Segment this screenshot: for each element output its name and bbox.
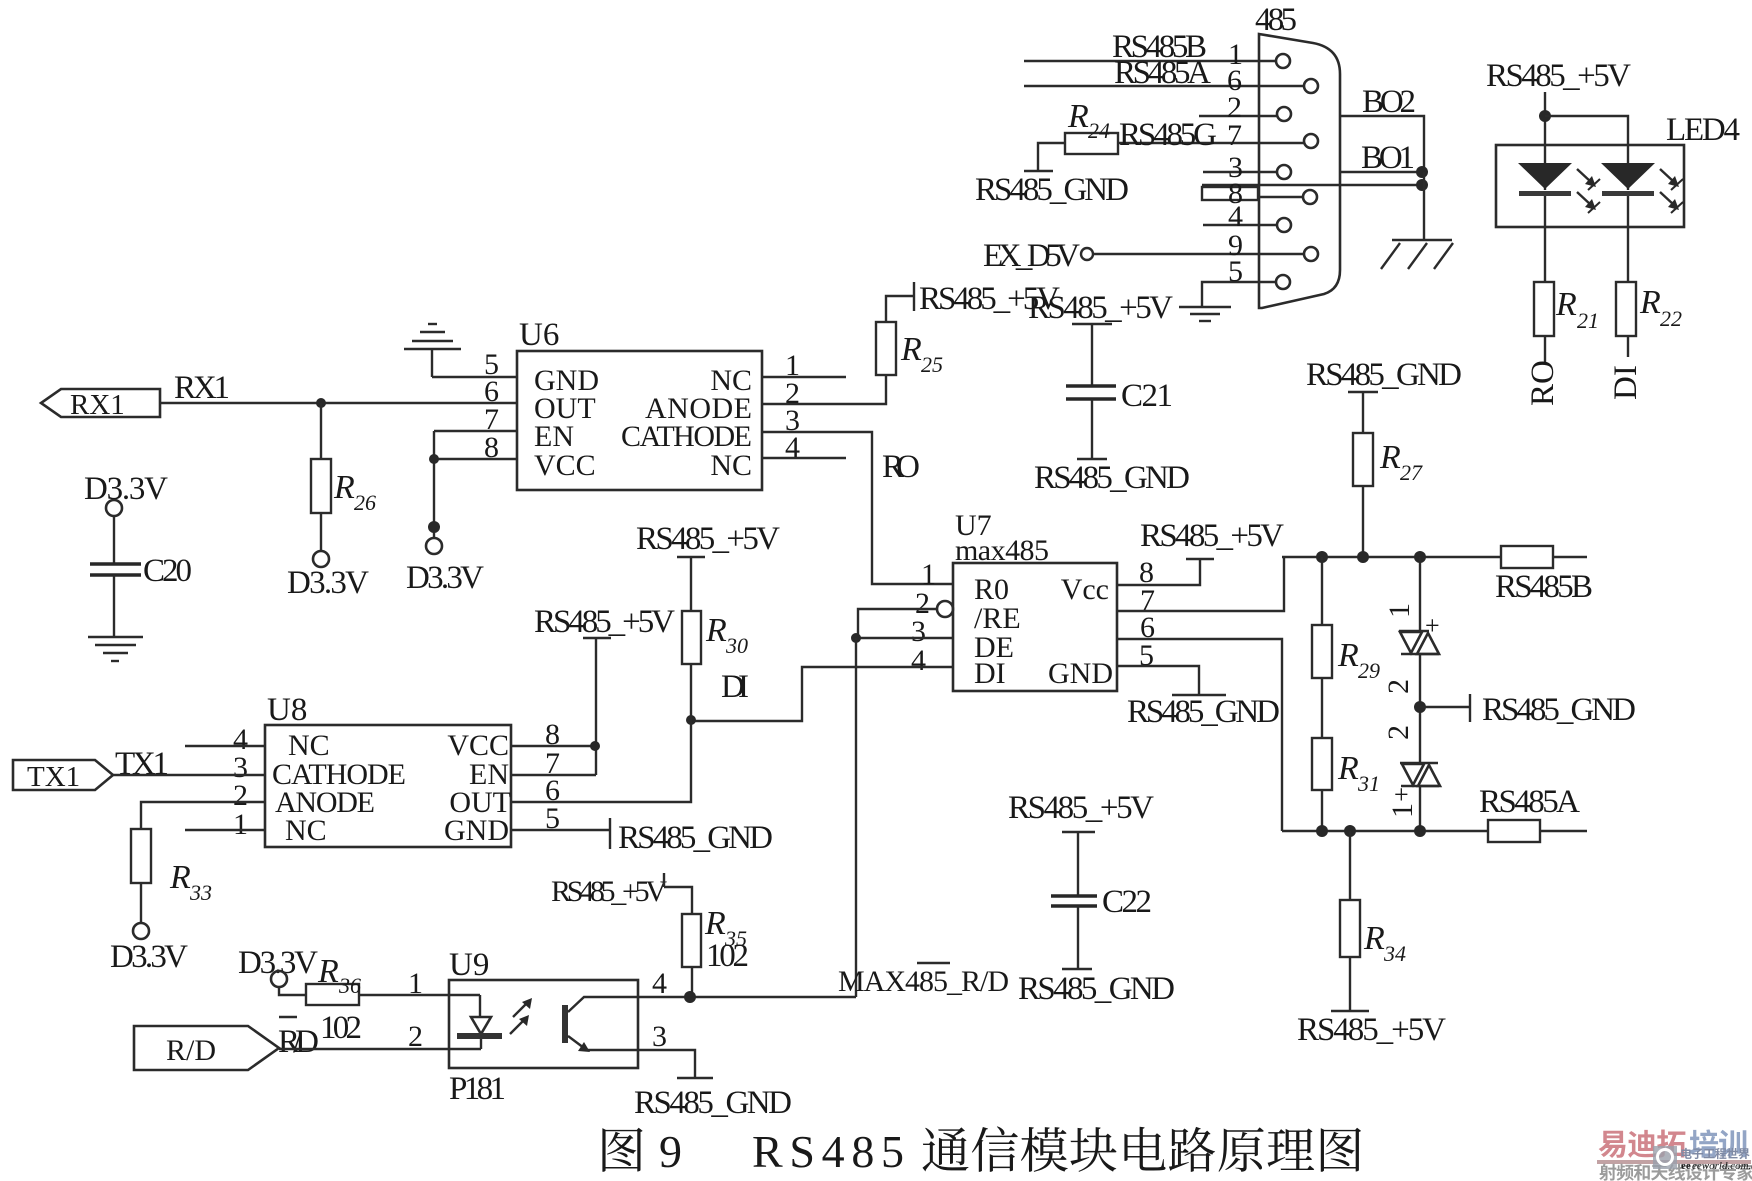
svg-text:RS485_GND: RS485_GND	[1127, 694, 1280, 730]
capacitor C22	[1018, 884, 1175, 1007]
connector RX1	[41, 389, 160, 421]
wire pin 4 stub	[1203, 200, 1277, 233]
U9 LED light arrows	[510, 998, 532, 1034]
svg-text:3: 3	[652, 1020, 667, 1053]
wire U8 pin5 GND	[511, 818, 773, 856]
svg-text:22: 22	[1660, 306, 1682, 331]
wire U7 pin7 to top rail	[1117, 557, 1284, 611]
resistor R30	[682, 611, 748, 725]
svg-text:RX1: RX1	[70, 389, 125, 421]
earth ground under pin 5	[1179, 307, 1231, 321]
net label RX1	[174, 370, 230, 406]
U7 pin2 inversion circle	[937, 601, 953, 617]
pin 1 circle	[1276, 54, 1290, 68]
svg-text:TX1: TX1	[115, 746, 169, 782]
svg-text:RS485B: RS485B	[1495, 569, 1593, 605]
wire U6 pin7 EN / pin8 VCC tie	[428, 431, 517, 538]
TVS diode D3 (top)	[1383, 557, 1440, 654]
wire TX1 to U8 pin3	[113, 774, 265, 776]
svg-text:34: 34	[1383, 941, 1406, 966]
watermark eeworld logo	[1653, 1146, 1752, 1172]
svg-text:R: R	[704, 905, 726, 942]
LED D2 arrows	[1660, 169, 1683, 213]
svg-text:R: R	[1067, 98, 1089, 135]
svg-text:RS485_GND: RS485_GND	[618, 820, 773, 856]
capacitor C20	[90, 516, 192, 637]
svg-text:4: 4	[652, 967, 667, 1000]
svg-text:36: 36	[338, 973, 361, 998]
svg-text:GND: GND	[444, 814, 509, 847]
svg-text:RS485_GND: RS485_GND	[1018, 971, 1175, 1007]
wire U9 pin3 to RS485_GND	[634, 1020, 792, 1121]
U8 pin labels	[272, 729, 511, 847]
svg-text:ee: ee	[1681, 1160, 1691, 1172]
svg-text:1: 1	[1383, 603, 1416, 618]
svg-text:RS485_+5V: RS485_+5V	[636, 521, 780, 557]
svg-text:9: 9	[659, 1126, 682, 1177]
net RS485A label	[1479, 784, 1580, 820]
wire U8 pin2 ANODE to R33	[141, 802, 265, 829]
svg-text:VCC: VCC	[534, 449, 596, 482]
svg-text:RO: RO	[882, 449, 920, 485]
svg-text:Vcc: Vcc	[1061, 573, 1109, 606]
svg-text:R: R	[1363, 920, 1385, 957]
svg-text:R: R	[1555, 286, 1577, 323]
svg-text:RS485: RS485	[752, 1126, 904, 1177]
resistor R31	[1312, 678, 1380, 831]
wire U8 pin7 EN	[511, 774, 596, 776]
net RS485_+5V (R34)	[1297, 957, 1446, 1048]
svg-text:GND: GND	[1048, 657, 1113, 690]
svg-text:RS485_+5V: RS485_+5V	[1008, 790, 1154, 826]
wire U6 pin4 NC stub	[762, 457, 846, 459]
optocoupler U6 box	[517, 317, 762, 490]
svg-text:RX1: RX1	[174, 370, 230, 406]
wire R25 to RS485_+5V	[886, 281, 1060, 322]
wire U8 pin1 stub	[185, 829, 265, 831]
earth ground (C20)	[88, 637, 143, 661]
wire U7 pin5 GND	[1117, 666, 1280, 730]
optocoupler U9 box	[449, 947, 638, 1107]
wire pin 8 long line to BO1 node	[1202, 177, 1421, 210]
terminal D3.3V (R33)	[110, 883, 188, 975]
wire LED D2 to R22	[1627, 227, 1629, 282]
pin 7 circle	[1304, 134, 1318, 148]
wire U9 pin4 to MAX485_R/D	[638, 967, 696, 1003]
svg-text:RS485_+5V: RS485_+5V	[919, 281, 1060, 317]
net RS485_GND above R27	[1306, 357, 1462, 433]
svg-text:TX1: TX1	[27, 761, 80, 793]
svg-text:R: R	[333, 469, 355, 506]
wire R22 to DI	[1627, 336, 1629, 357]
resistor R35	[682, 905, 749, 996]
wire U8 pin6 OUT to DI node	[511, 720, 691, 802]
net RO (vertical)	[1525, 360, 1561, 406]
svg-text:RS485_+5V: RS485_+5V	[1486, 58, 1631, 94]
net MAX485_R/D	[838, 963, 1009, 998]
net RS485_+5V (C22)	[1008, 790, 1154, 895]
resistor R26	[311, 403, 376, 515]
pin 3 circle	[1277, 165, 1291, 179]
svg-text:R: R	[1639, 284, 1661, 321]
svg-text:102: 102	[706, 938, 749, 974]
svg-text:D3.3V: D3.3V	[287, 565, 369, 601]
resistor R24	[1065, 98, 1118, 154]
svg-text:NC: NC	[285, 814, 327, 847]
svg-text:BO2: BO2	[1362, 84, 1416, 120]
terminal D3.3V (R36)	[238, 945, 318, 995]
wire U8 pin8 VCC	[511, 741, 600, 751]
svg-text:D3.3V: D3.3V	[84, 471, 168, 507]
wire RX1 to U6 pin6 OUT	[160, 398, 517, 408]
svg-text:RO: RO	[1525, 360, 1561, 406]
U9 internal phototransistor	[562, 997, 637, 1052]
resistor R25	[876, 322, 943, 377]
svg-text:1: 1	[408, 967, 423, 1000]
svg-text:BO1: BO1	[1361, 140, 1415, 176]
svg-text:C20: C20	[143, 553, 192, 589]
svg-text:26: 26	[354, 490, 376, 515]
net RS485B label	[1495, 569, 1593, 605]
svg-text:30: 30	[725, 633, 748, 658]
pin 2 circle	[1277, 107, 1291, 121]
svg-text:RS485_GND: RS485_GND	[1034, 460, 1190, 496]
svg-text:R/D: R/D	[278, 1024, 319, 1060]
chassis ground (BO1)	[1381, 240, 1453, 269]
pin 4 circle	[1277, 218, 1291, 232]
svg-text:RS485_GND: RS485_GND	[975, 172, 1129, 208]
svg-text:5: 5	[1228, 255, 1243, 288]
svg-text:R: R	[317, 953, 339, 990]
wire pin 2 stub	[1199, 91, 1277, 124]
wire BO1	[1340, 140, 1428, 240]
svg-text:R: R	[705, 612, 727, 649]
svg-text:C21: C21	[1121, 378, 1173, 414]
U7 pin numbers	[911, 556, 1155, 677]
net RS485_+5V (R35)	[551, 873, 692, 914]
caption 图9 RS485 通信模块电路原理图	[602, 1126, 1361, 1177]
terminal D3.3V (U6)	[406, 538, 484, 596]
svg-text:25: 25	[921, 352, 943, 377]
wire LED D1 to R21	[1544, 227, 1546, 282]
U6 left pin labels	[534, 364, 599, 482]
svg-text:2: 2	[408, 1020, 423, 1053]
U9 internal LED	[457, 995, 502, 1049]
LED D2 (DI)	[1601, 145, 1655, 227]
wire R36 to U9 pin1	[359, 967, 480, 1000]
terminal D3.3V (R26)	[287, 513, 369, 601]
net RS485_GND (R24)	[975, 172, 1129, 208]
net DI label	[721, 669, 749, 705]
net label TX1	[115, 746, 169, 782]
net RS485_+5V (U8)	[534, 604, 675, 775]
wire pin 3 stub	[1203, 151, 1277, 184]
wire U7 pin2 /RE and pin3 DE tie	[851, 609, 953, 643]
bottom rail node	[1282, 825, 1488, 837]
svg-text:RS485_+5V: RS485_+5V	[551, 875, 667, 908]
svg-text:RS485_GND: RS485_GND	[1306, 357, 1462, 393]
wire U8 pin4 stub	[185, 745, 265, 747]
wire RS485B to pin 1	[1024, 29, 1276, 71]
capacitor C21	[1034, 324, 1190, 496]
LED D1 (RO)	[1518, 145, 1572, 227]
svg-text:RS485_+5V: RS485_+5V	[1297, 1012, 1446, 1048]
resistor RS485B (series)	[1501, 546, 1587, 568]
terminal D3.3V C20	[84, 471, 168, 516]
svg-text:R: R	[169, 859, 191, 896]
net RS485_+5V (LED4)	[1486, 58, 1631, 94]
svg-text:C22: C22	[1102, 884, 1152, 920]
pin 8 circle	[1303, 190, 1317, 204]
U6 left pin numbers	[484, 348, 499, 464]
resistor R21	[1534, 282, 1599, 336]
wire /RE-DE down to MAX485_R/D	[690, 638, 856, 997]
resistor R33	[131, 829, 212, 905]
wire RS485G to pin 7	[1118, 117, 1304, 153]
resistor R27	[1353, 433, 1423, 557]
wire +5V to LED4	[1539, 92, 1628, 145]
resistor R34	[1340, 831, 1406, 966]
svg-text:21: 21	[1577, 308, 1599, 333]
svg-text:R/D: R/D	[166, 1034, 216, 1067]
wire U6 pin2 ANODE to R25	[762, 375, 886, 404]
wire R21 to RO	[1544, 336, 1546, 364]
svg-text:29: 29	[1358, 658, 1380, 683]
pin 9 circle	[1304, 247, 1318, 261]
svg-text:D3.3V: D3.3V	[110, 939, 188, 975]
svg-text:DI: DI	[1608, 365, 1644, 400]
LED D1 arrows	[1577, 169, 1600, 213]
svg-text:RS485A: RS485A	[1114, 55, 1211, 91]
svg-text:RS485_GND: RS485_GND	[1482, 692, 1636, 728]
svg-text:R: R	[1337, 637, 1359, 674]
svg-text:max485: max485	[955, 534, 1049, 567]
U6 right pin labels	[621, 364, 752, 482]
ground above U6	[404, 324, 461, 377]
svg-text:LED4: LED4	[1666, 112, 1740, 148]
wire pin 5 to earth	[1202, 255, 1276, 306]
svg-text:2: 2	[1382, 679, 1415, 694]
svg-text:RS485_+5V: RS485_+5V	[1140, 518, 1284, 554]
svg-text:NC: NC	[710, 449, 752, 482]
optocoupler U8 box	[265, 692, 511, 847]
svg-text:D3.3V: D3.3V	[238, 945, 318, 981]
net RS485_+5V (pin5)	[1028, 290, 1173, 326]
svg-text:485: 485	[1255, 2, 1297, 38]
net DI (vertical)	[1608, 365, 1644, 400]
svg-text:2: 2	[1382, 725, 1415, 740]
svg-text:R: R	[1379, 439, 1401, 476]
top rail node	[1282, 551, 1501, 563]
svg-text:R: R	[900, 331, 922, 368]
svg-text:D3.3V: D3.3V	[406, 560, 484, 596]
wire U6 pin3 CATHODE to U7 pin1 (RO net)	[762, 432, 953, 584]
wire BO2	[1340, 84, 1424, 172]
wire U7 pin4 DI	[691, 667, 953, 721]
wire R/D to U9 pin2	[279, 1020, 481, 1053]
watermark 易迪拓培训	[1597, 1129, 1752, 1180]
TVS diode D4 (bottom)	[1386, 763, 1440, 831]
svg-text:7: 7	[1227, 119, 1242, 152]
svg-text:U9: U9	[449, 947, 489, 983]
svg-text:U8: U8	[267, 692, 307, 728]
svg-text:RS485G: RS485G	[1119, 117, 1217, 153]
svg-text:4: 4	[911, 644, 926, 677]
U6 right pin numbers	[785, 349, 800, 464]
connector R/D	[134, 1026, 279, 1070]
connector J1 DB9 485 body	[1255, 2, 1340, 308]
svg-text:P181: P181	[449, 1071, 506, 1107]
svg-text:24: 24	[1088, 118, 1110, 143]
mid node to RS485_GND	[1382, 654, 1636, 763]
connector TX1	[13, 760, 113, 793]
svg-text:EX_D5V: EX_D5V	[983, 238, 1080, 274]
pin 6 circle	[1304, 79, 1318, 93]
svg-text:102: 102	[320, 1010, 362, 1046]
wire U6 pin5 GND	[432, 376, 517, 378]
svg-text:33: 33	[189, 880, 212, 905]
wire U7 pin8 Vcc to +5V	[1117, 518, 1284, 585]
svg-text:RS485_+5V: RS485_+5V	[534, 604, 675, 640]
svg-text:eeworld.com.cn: eeworld.com.cn	[1692, 1160, 1752, 1172]
svg-text:DI: DI	[721, 669, 749, 705]
svg-text:27: 27	[1400, 460, 1423, 485]
resistor R22	[1616, 282, 1682, 336]
svg-text:RS485_GND: RS485_GND	[634, 1085, 792, 1121]
svg-text:MAX485_R/D: MAX485_R/D	[838, 965, 1009, 998]
U7 pin labels	[974, 573, 1113, 690]
net label R/D with overbar	[278, 1017, 319, 1060]
wire RS485A to pin 6	[1024, 55, 1304, 97]
svg-text:RS485A: RS485A	[1479, 784, 1580, 820]
wire R24 left lead to RS485_GND	[1024, 143, 1065, 171]
U8 pin numbers	[233, 718, 560, 841]
svg-text:1: 1	[233, 808, 248, 841]
wire U6 pin1 NC stub	[762, 376, 846, 378]
transceiver U7 max485 box	[953, 509, 1117, 691]
pin 5 circle	[1276, 275, 1290, 289]
LED4 box	[1496, 112, 1740, 227]
net RS485_+5V (R30)	[636, 521, 780, 611]
wire U7 pin6 to bottom rail	[1117, 639, 1282, 831]
resistor R36	[306, 953, 362, 1046]
svg-text:1: 1	[1386, 803, 1419, 818]
resistor R29	[1312, 557, 1380, 683]
svg-text:U6: U6	[519, 317, 559, 353]
svg-text:R: R	[1337, 750, 1359, 787]
resistor RS485A (series)	[1488, 820, 1587, 842]
svg-text:DI: DI	[974, 657, 1006, 690]
svg-text:31: 31	[1357, 771, 1380, 796]
net EX_D5V to pin 9	[983, 229, 1304, 274]
